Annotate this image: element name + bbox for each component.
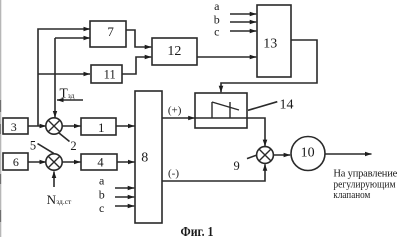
svg-text:14: 14 — [280, 97, 294, 112]
svg-text:c: c — [99, 201, 104, 215]
svg-text:c: c — [214, 25, 219, 39]
svg-text:12: 12 — [167, 44, 181, 59]
svg-text:8: 8 — [141, 150, 148, 165]
svg-text:6: 6 — [13, 155, 19, 169]
svg-text:2: 2 — [70, 139, 76, 153]
svg-text:зд: зд — [68, 91, 75, 100]
svg-text:4: 4 — [97, 155, 104, 169]
svg-text:10: 10 — [301, 146, 315, 161]
svg-text:На управление: На управление — [333, 169, 397, 180]
svg-text:N: N — [47, 192, 57, 207]
svg-text:(-): (-) — [168, 167, 179, 179]
svg-text:a: a — [214, 0, 220, 13]
svg-text:11: 11 — [104, 68, 116, 82]
svg-text:b: b — [99, 188, 105, 202]
svg-text:a: a — [99, 173, 105, 187]
svg-text:5: 5 — [30, 138, 36, 152]
svg-text:(+): (+) — [168, 105, 182, 117]
svg-text:7: 7 — [107, 24, 114, 39]
svg-text:Фиг. 1: Фиг. 1 — [181, 225, 214, 237]
svg-text:клапаном: клапаном — [333, 190, 370, 201]
svg-text:9: 9 — [233, 159, 239, 173]
svg-text:13: 13 — [263, 37, 277, 52]
svg-text:1: 1 — [98, 120, 105, 135]
svg-text:регулирующим: регулирующим — [333, 179, 395, 190]
svg-text:зд.ст: зд.ст — [56, 197, 72, 206]
svg-text:3: 3 — [11, 120, 17, 134]
